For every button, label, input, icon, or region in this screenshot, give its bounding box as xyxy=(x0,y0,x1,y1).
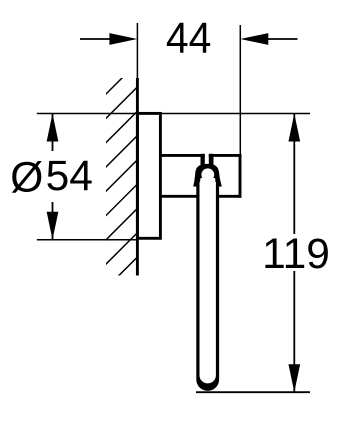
svg-text:119: 119 xyxy=(262,231,330,278)
svg-text:54: 54 xyxy=(46,153,93,200)
119 down arrowhead xyxy=(288,364,300,392)
rosette (wall plate, side view) xyxy=(137,113,160,238)
dim 44: right arrowhead xyxy=(240,33,268,45)
ring hook outer (bell shape) xyxy=(193,164,222,187)
dim 44: right dimension line xyxy=(267,38,298,40)
119 dimension line upper shaft xyxy=(293,114,295,235)
holder body top line xyxy=(160,154,241,157)
pin prongs xyxy=(201,154,205,166)
dia-54 dimension line lower shaft xyxy=(52,202,54,240)
dia-54 down arrowhead xyxy=(47,212,59,240)
hook hole widening xyxy=(200,178,216,185)
dim 44: left dimension line xyxy=(80,38,112,40)
pin slot (white gap in body top line) xyxy=(205,154,209,164)
dim 44: right extension line xyxy=(239,25,241,155)
ring tube outer (side view, down to bottom U-turn) xyxy=(196,185,219,391)
wall face line xyxy=(136,78,139,276)
holder body bottom line xyxy=(160,195,241,198)
hook bottom flatten xyxy=(191,187,224,195)
ring tube inner xyxy=(200,182,216,383)
svg-text:44: 44 xyxy=(166,14,212,63)
wall hatching xyxy=(103,62,138,291)
119 dimension line lower shaft xyxy=(293,271,295,392)
svg-text:Ø: Ø xyxy=(10,154,43,201)
bottom extension line of 119 xyxy=(196,391,310,393)
top extension line (shared by dia-54 and 119 dims) xyxy=(37,113,310,115)
119 up arrowhead xyxy=(288,114,300,142)
dim 44: left extension line / wall top xyxy=(136,23,138,78)
dia-54 dimension line upper shaft xyxy=(52,114,54,152)
dim 44: left arrowhead xyxy=(109,33,137,45)
bottom extension line of dia-54 xyxy=(37,239,138,241)
holder body right edge xyxy=(239,154,242,198)
ring hook hole xyxy=(201,168,214,181)
dia-54 up arrowhead xyxy=(47,114,59,142)
